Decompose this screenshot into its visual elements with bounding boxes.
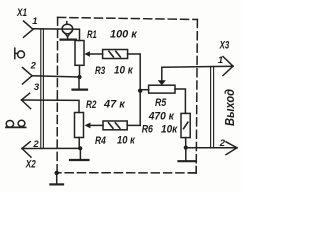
node: output common junction — [184, 146, 188, 150]
resistor R1 (potentiometer 100k) — [75, 41, 84, 66]
svg-text:2: 2 — [30, 61, 37, 72]
svg-text:10к: 10к — [161, 123, 178, 135]
svg-text:Выход: Выход — [222, 89, 237, 126]
svg-text:100 к: 100 к — [110, 29, 137, 41]
wiper arrow of R2 — [85, 123, 91, 129]
wire: node to R5 left — [140, 89, 148, 91]
svg-text:R3: R3 — [95, 65, 105, 77]
svg-text:X3: X3 — [219, 40, 229, 52]
node: junction X2.2 / R2 bottom — [78, 146, 82, 150]
node: shield box ground corner — [55, 171, 59, 175]
resistor R4 10k — [103, 121, 127, 130]
wire: R5 wiper to X3 pin1 — [162, 66, 233, 80]
chassis ground bar under screen — [61, 38, 77, 40]
node: feeder junction to R5 — [138, 89, 142, 93]
svg-text:R4: R4 — [95, 135, 106, 147]
svg-text:3: 3 — [34, 82, 40, 93]
svg-text:R2: R2 — [86, 99, 96, 111]
wire: X2 pin3 to R2 top — [22, 100, 80, 113]
wire: R3 to feeder node — [128, 54, 141, 125]
svg-text:1: 1 — [218, 55, 223, 66]
wire: X1 pin2 to R1 bottom — [32, 76, 80, 77]
input label glyph ab — [6, 120, 26, 127]
svg-text:2: 2 — [219, 138, 226, 149]
screened pair lines left — [41, 29, 44, 149]
screened pair lines right — [211, 66, 214, 147]
resistor R3 10k — [103, 50, 128, 59]
wire: R4 to feeder node — [127, 124, 140, 126]
wire: R2 wiper to R4 — [89, 124, 103, 126]
wiper arrow of R5 — [158, 80, 166, 85]
wire: X1 pin1 to R1 top — [33, 29, 80, 41]
ground under output junction — [179, 148, 196, 162]
resistor R6 10k — [181, 113, 190, 137]
input label glyph yu — [15, 48, 25, 58]
node: junction X1.2 / R1 bottom — [77, 75, 81, 79]
ground under R1 junction — [73, 77, 88, 90]
connector X2 pin 2 — [22, 142, 31, 157]
svg-text:R6: R6 — [142, 123, 154, 135]
connector X1 pin 2 — [23, 68, 33, 85]
svg-text:1: 1 — [32, 16, 37, 27]
svg-text:X1: X1 — [16, 7, 27, 19]
shield screen symbol on input 1 — [62, 22, 73, 39]
svg-text:R1: R1 — [87, 29, 97, 41]
svg-text:X2: X2 — [25, 158, 36, 170]
wire: R1 wiper to R3 — [89, 53, 103, 55]
svg-text:47 к: 47 к — [103, 99, 125, 111]
connector X2 pin 3 — [22, 93, 31, 108]
R1 bottom lead — [79, 65, 81, 77]
svg-text:2: 2 — [32, 139, 39, 150]
ground of shield box — [50, 173, 63, 185]
wire: X2 pin2 to R2 bottom — [22, 147, 80, 149]
connector X3 pin 1 — [223, 57, 233, 76]
shield box (dashed enclosure) — [57, 17, 197, 173]
wire: junction to X3 pin 2 — [186, 147, 237, 149]
connector X3 pin 2 — [226, 142, 237, 155]
resistor R2 (potentiometer 47k) — [75, 113, 84, 138]
wire: R5 right to R6 top — [175, 89, 185, 113]
svg-text:10 к: 10 к — [114, 64, 133, 76]
R6 bottom lead — [185, 138, 187, 148]
wiper arrow of R1 — [84, 51, 90, 57]
svg-text:10 к: 10 к — [117, 135, 135, 147]
connector X1 pin 1 — [24, 21, 34, 37]
resistor R5 (potentiometer 470k) — [149, 85, 175, 93]
ground under R2 junction — [70, 148, 89, 160]
svg-text:R5: R5 — [155, 97, 167, 109]
R2 bottom lead — [78, 138, 80, 149]
svg-text:470 к: 470 к — [148, 110, 175, 122]
